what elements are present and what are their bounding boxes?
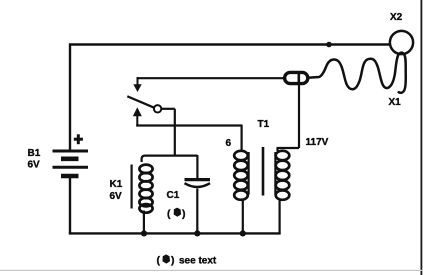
svg-text:T1: T1 [258, 119, 270, 130]
wire C1 to rail [196, 189, 198, 234]
wire T1 primary top to plug [277, 83, 300, 151]
svg-text:(: ( [157, 255, 161, 267]
relay K1 coil [139, 165, 152, 213]
svg-text:B1: B1 [28, 148, 41, 159]
switch fixed contact (down arrow) [133, 77, 141, 92]
svg-text:K1: K1 [110, 179, 123, 190]
wire bottom rail [69, 232, 281, 234]
wire armature horizontal run [136, 124, 242, 126]
wire down to T1 secondary top [241, 126, 243, 152]
wire T1 primary bottom to rail [279, 199, 281, 234]
svg-text:X1: X1 [389, 97, 402, 108]
wire switch to plug [138, 77, 286, 79]
note (*) see text [157, 254, 217, 266]
svg-text:see text: see text [179, 256, 217, 267]
wire K1 to rail [143, 211, 145, 234]
wire top rail [69, 43, 390, 45]
transformer T1 core [262, 147, 265, 196]
svg-text:6V: 6V [110, 191, 123, 202]
wire T1 secondary bottom to rail [242, 199, 244, 233]
switch arm [127, 96, 155, 108]
wire contact circle to node [161, 108, 175, 110]
svg-text:(: ( [167, 208, 171, 220]
label + (battery polarity) [74, 134, 83, 144]
battery B1 [53, 151, 89, 176]
wire C1 top lead [196, 155, 198, 178]
transformer T1 secondary coil [234, 151, 248, 200]
junction dot on top rail [326, 42, 332, 48]
relay K1 core line [131, 165, 133, 209]
svg-text:X2: X2 [390, 12, 403, 23]
wire node down to coil-cap wire [174, 109, 176, 156]
svg-text:C1: C1 [167, 190, 180, 201]
switch contact circle [154, 105, 161, 112]
wire left rail [69, 44, 71, 151]
svg-text:): ) [171, 255, 175, 267]
svg-text:6V: 6V [28, 160, 41, 171]
socket X2 [390, 31, 413, 54]
junction dot K1/rail [141, 230, 147, 236]
line cord to plug [308, 53, 406, 93]
capacitor C1 [185, 180, 211, 187]
svg-text:): ) [182, 208, 186, 220]
transformer T1 secondary side line [248, 152, 250, 195]
switch armature (up arrow) [133, 107, 142, 126]
junction dot T1/rail [240, 230, 246, 236]
svg-text:117V: 117V [306, 137, 329, 148]
transformer T1 primary side line [274, 152, 276, 195]
plug body on cord [285, 72, 308, 83]
wire battery to bottom rail [69, 177, 71, 234]
wire K1 coil to C1 top [142, 156, 198, 162]
label (*) [167, 208, 186, 220]
junction dot C1/rail [194, 230, 200, 236]
transformer T1 primary coil [276, 151, 290, 200]
svg-text:6: 6 [226, 138, 232, 149]
